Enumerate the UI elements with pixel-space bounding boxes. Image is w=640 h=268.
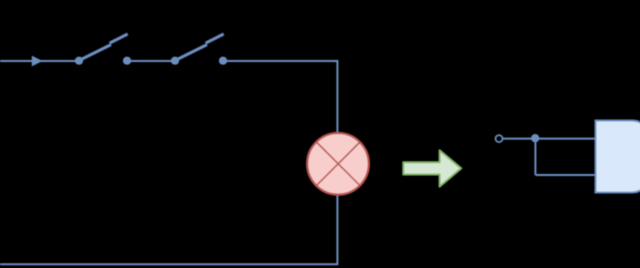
wire from lamp bottom down and along bottom back to left edge [0,194,337,264]
switch S1 blade [79,45,111,61]
wire from junction down [534,138,536,175]
annotation arrow (implies) [403,150,461,186]
switch S2 blade [175,45,207,61]
lamp L1 [307,133,369,195]
terminal (open circle) [496,135,503,142]
block (module) [596,121,640,193]
switch S2 pivot dot [171,57,179,65]
wire from S2 to top-right corner and down to lamp [223,61,337,134]
wire between S1 and S2 [127,60,175,62]
wire to block second input [535,174,595,176]
junction node [531,134,539,142]
switch S1 pivot dot [75,57,83,65]
current direction arrow [32,56,43,67]
switch S2 terminal dot [219,57,227,65]
wire from terminal to block input [503,138,596,140]
switch S1 terminal dot [123,57,131,65]
wire top-left from left edge to switch S1 [0,60,80,62]
